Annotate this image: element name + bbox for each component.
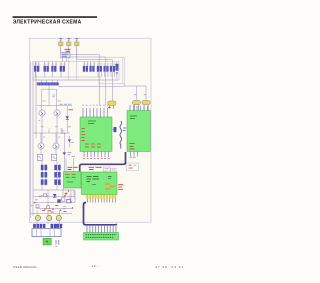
capacitor C5 (above U2) — [132, 100, 140, 110]
transistor Q4 — [53, 133, 59, 154]
LED L2 — [47, 215, 52, 220]
zener D7 (red) — [65, 192, 68, 196]
wire top bus 1 — [61, 54, 100, 56]
wire transistor header — [37, 105, 73, 107]
interconnect squiggle wire — [120, 121, 122, 149]
label Q1 — [42, 100, 45, 102]
resistor pair R5 — [83, 62, 89, 72]
resistor pair R10 — [55, 172, 61, 177]
capacitor pair C3 — [110, 64, 115, 77]
labels row2 — [41, 127, 71, 137]
wire fuse drop F3 ext — [76, 60, 78, 81]
relay RY2 — [52, 154, 57, 160]
transformer T1 — [32, 229, 61, 237]
component small box J2 — [111, 168, 116, 173]
resistor pair R2 — [44, 62, 50, 78]
pins top of U2 — [130, 106, 148, 111]
small parts row above LEDs — [31, 190, 75, 212]
module box (right, double) — [99, 57, 124, 84]
harness cable to CN2 (thick U shape) — [84, 203, 117, 225]
wire left rail 3 — [35, 62, 37, 139]
LED L1 — [35, 215, 40, 220]
capacitor C9 — [67, 199, 72, 203]
capacitor pair C2 — [104, 64, 109, 77]
wire left rail 1 — [30, 62, 32, 219]
diode D1 — [66, 106, 69, 133]
wire drops to bus bar — [42, 80, 58, 83]
transistor Q1 — [38, 110, 45, 143]
relay RY1 — [38, 154, 43, 160]
wire bus-bar stem — [48, 85, 50, 106]
label Q2 — [57, 100, 60, 102]
wire mid horizontal — [59, 86, 125, 88]
pin labels above U2 — [130, 105, 136, 107]
IC U3 — [64, 172, 82, 189]
fuse F2 — [67, 39, 71, 57]
switch pair SW2 — [40, 224, 45, 228]
switch pair SW1 — [33, 224, 38, 228]
resistor R14 — [58, 195, 66, 202]
wire cap feed 2 — [145, 86, 147, 100]
ribbon cable U1 to U2 (thick) — [80, 152, 126, 171]
varistor box (long) — [33, 62, 119, 81]
label KEY (red, right of U4) — [118, 185, 123, 190]
wire box bottom bus — [33, 76, 101, 78]
schematic frame — [30, 38, 152, 222]
wire vertical drop C — [111, 60, 113, 102]
IC U4 (main controller) — [82, 172, 118, 195]
IC U2 — [127, 111, 150, 152]
node label C7 — [52, 95, 55, 97]
bottom-left cluster wires — [31, 189, 75, 229]
resistor pair R8 — [55, 165, 61, 170]
wire left grid rails — [42, 161, 60, 191]
terminal strip X1 (blue bar) — [37, 83, 59, 86]
label net12 — [61, 131, 66, 133]
capacitor pair C1 — [97, 64, 103, 77]
component small box J1 — [104, 167, 111, 173]
label AC input (red) — [65, 49, 71, 51]
buzzer BZ1 (green) — [43, 238, 51, 245]
pin labels below U1 — [83, 158, 109, 160]
capacitor C6 (above U2) — [142, 100, 150, 110]
capacitor C4 (above U1) — [108, 101, 116, 109]
label D5 (red) — [69, 109, 74, 111]
label C5 — [134, 94, 146, 96]
wire K1 stubs — [63, 58, 67, 62]
resistor pair R3 — [52, 62, 58, 78]
resistor R13 (between ICs) — [112, 127, 126, 132]
svg-text:07.06. A3 01: 07.06. A3 01 — [156, 265, 184, 269]
comb above CN2 — [87, 226, 116, 233]
sensor box S1 — [127, 163, 139, 171]
wire cap feed 1 — [136, 86, 138, 100]
jumper pins below T1 — [55, 240, 59, 247]
wire bus T — [42, 89, 57, 110]
label net right — [60, 103, 72, 105]
pin header labels above U1 — [82, 104, 108, 106]
switch pair SW3 — [51, 224, 56, 228]
comb legs below U4 — [87, 199, 115, 203]
resistor pair R9 — [41, 172, 47, 177]
transistor Q2 — [54, 110, 60, 143]
wire box bottom bus 2 — [33, 79, 119, 81]
title rule — [13, 16, 98, 18]
diode D3 — [63, 133, 74, 172]
fuse F3 — [75, 39, 79, 60]
connector CN2 (green strip) — [84, 233, 119, 241]
pin labels below U2 — [130, 154, 136, 158]
wire top bus 3 — [77, 59, 113, 61]
svg-text:ЭЛЕКТРИЧЕСКАЯ СХЕМА: ЭЛЕКТРИЧЕСКАЯ СХЕМА — [13, 20, 82, 26]
switch pair SW4 — [57, 224, 62, 228]
wire vertical drop A — [98, 55, 100, 106]
pin comb below U4 (yellow) — [86, 195, 116, 199]
pins top of U1 — [83, 108, 108, 117]
resistor pair R12 — [55, 180, 61, 185]
IC U1 — [80, 117, 112, 152]
wire row2 header — [33, 132, 70, 134]
wire top bus 2 — [69, 56, 106, 58]
label CN09 (red) — [89, 167, 102, 169]
wire left rail 2 — [32, 62, 34, 191]
wire row2 stubs — [49, 129, 62, 134]
capacitor C8 — [41, 194, 49, 197]
resistor pair R4 — [60, 62, 66, 78]
pins bottom of U1 — [84, 152, 109, 158]
label under C4 (red) — [108, 106, 111, 108]
transistor Q3 — [38, 133, 44, 154]
svg-text:USER MANUAL: USER MANUAL — [13, 265, 37, 269]
wire vertical drop B — [105, 57, 107, 106]
diode D6 — [53, 194, 57, 198]
resistor pair R7 — [41, 165, 47, 170]
diode D2 — [68, 136, 74, 147]
resistor pair R1 — [34, 62, 40, 78]
label box K1 — [61, 52, 70, 58]
inductor L1 — [116, 62, 119, 79]
LED L3 — [56, 215, 61, 220]
wire module right drop — [124, 84, 146, 86]
label D3 — [67, 153, 75, 157]
resistor pair R11 — [41, 180, 47, 185]
pins bottom of U2 — [131, 152, 138, 157]
label CN08 (red) — [68, 167, 78, 169]
wire fuse drop F2 ext — [68, 57, 70, 80]
resistor pair R6 — [90, 62, 96, 72]
fuse F1 — [59, 39, 63, 55]
svg-text:- 22 -: - 22 - — [89, 264, 99, 268]
